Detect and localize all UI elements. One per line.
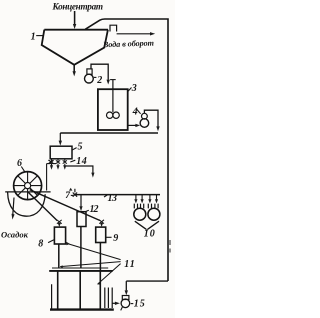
svg-text:3: 3	[131, 83, 137, 94]
svg-text:Концентрат: Концентрат	[52, 1, 104, 11]
svg-text:8: 8	[38, 239, 43, 250]
svg-text:Осадок: Осадок	[1, 230, 29, 240]
svg-text:2: 2	[96, 75, 102, 86]
svg-text:1: 1	[31, 32, 36, 43]
svg-text:11: 11	[124, 259, 135, 270]
svg-text:6: 6	[17, 158, 22, 169]
svg-text:7: 7	[65, 191, 71, 201]
svg-text:9: 9	[113, 233, 118, 244]
svg-text:4: 4	[132, 106, 138, 117]
svg-text:Вода в оборот: Вода в оборот	[102, 39, 154, 50]
svg-text:14: 14	[76, 156, 87, 167]
svg-text:12: 12	[90, 204, 99, 215]
svg-text:5: 5	[78, 142, 83, 153]
svg-text:15: 15	[134, 298, 145, 309]
svg-text:10: 10	[144, 228, 155, 239]
svg-text:13: 13	[108, 193, 118, 204]
